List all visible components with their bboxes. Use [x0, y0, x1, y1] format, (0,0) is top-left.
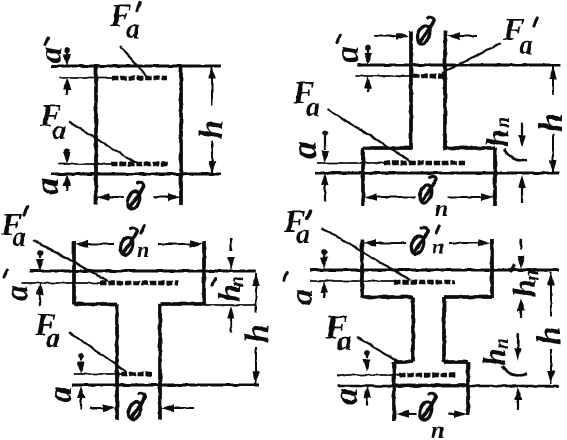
Q2 flange top right segment: [445, 146, 495, 150]
Q2 top rebar extension line: [356, 75, 413, 77]
Q2 inverted-T web right edge: [443, 31, 447, 150]
svg-text:a: a: [328, 388, 365, 405]
Q1 top rebar extension line: [59, 77, 112, 79]
Q2 flange left edge: [361, 148, 365, 206]
svg-text:a: a: [284, 141, 324, 159]
svg-text:a: a: [12, 222, 26, 253]
svg-text:h: h: [239, 324, 276, 343]
Q4 dimension h_p arrows: [517, 333, 519, 348]
Q3 flange bottom right segment: [160, 302, 204, 306]
Q4 dimension a' arrows: [321, 249, 327, 255]
Q3 label b_p': [118, 228, 137, 256]
Q4 bottom rebar F_a: [399, 373, 456, 377]
svg-text:a: a: [329, 46, 366, 63]
Q4 top flange bottom right segment: [444, 295, 492, 299]
Q1 rectangular section left edge: [94, 66, 98, 205]
Q3 dimension h_p' arrows: [230, 238, 232, 251]
Q3 T-section flange top edge: [30, 269, 256, 272]
svg-text:h: h: [476, 348, 512, 366]
Q2 inverted-T web left edge: [409, 31, 413, 150]
svg-text:п: п: [432, 234, 444, 259]
Q3 flange bottom extension right: [204, 304, 257, 306]
Q3 flange left edge: [72, 241, 76, 305]
Q3 dimension b_p' line: [75, 240, 88, 248]
Q1 dimension h line: [211, 66, 213, 106]
svg-text:h: h: [193, 120, 230, 139]
Q2 bottom rebar F_a: [384, 161, 465, 165]
Q3 section bottom edge: [72, 383, 259, 386]
Q3 web left edge: [115, 304, 119, 420]
Q4 leader from F_a to bottom rebar: [357, 337, 400, 363]
svg-text:a: a: [42, 386, 79, 403]
Q3 bottom rebar extension line: [74, 373, 121, 375]
Q2 dimension a arrows: [322, 130, 328, 136]
Q2 leader from F_a to bottom rebar: [327, 109, 412, 162]
Q2 dimension h_p arrows: [521, 122, 523, 135]
svg-text:a: a: [32, 47, 68, 63]
svg-text:a: a: [283, 289, 319, 305]
Q4 label b_p: [417, 393, 436, 421]
Q1 rectangular section top edge: [51, 64, 221, 67]
Q4 top rebar F_a': [394, 280, 455, 284]
Q2 inverted-T top edge: [357, 63, 560, 66]
Q4 bottom flange right edge: [466, 362, 470, 415]
Q1 label b (Cyrillic ve): [125, 182, 144, 210]
Q4 top flange bottom left segment: [362, 295, 413, 299]
Q2 flange bottom edge: [315, 171, 559, 174]
Q2 dimension b line: [374, 35, 396, 37]
Q3 dimension h line: [255, 273, 257, 312]
Q3 top rebar extension line: [22, 282, 100, 284]
Q4 dimension b_p' line: [363, 239, 376, 247]
svg-text:a: a: [296, 219, 310, 250]
Q4 bottom flange top right segment: [444, 360, 468, 364]
Q4 top rebar extension line: [310, 280, 394, 282]
Q3 flange right edge: [202, 241, 206, 305]
Q4 section bottom edge: [337, 385, 559, 387]
Q4 top flange left edge: [360, 239, 364, 298]
Q3 leader from F_a to bottom rebar: [69, 332, 127, 372]
Q3 web right edge: [158, 304, 162, 420]
svg-text:п: п: [137, 237, 149, 262]
Q1 leader from F_a' to top rebar: [120, 46, 147, 77]
svg-text:a: a: [337, 324, 352, 357]
Q1 leader from F_a to bottom rebar: [69, 122, 136, 163]
Q3 dimension a' arrows: [37, 250, 43, 256]
svg-text:п: п: [431, 418, 444, 440]
svg-text:h: h: [479, 129, 515, 147]
Q4 label b_p': [409, 227, 428, 255]
Q2 bottom rebar extension line: [317, 162, 384, 164]
Q1 dimension a arrows: [64, 148, 70, 154]
Q2 dimension h line: [552, 66, 554, 95]
Q2 dimension a' arrows: [365, 45, 371, 51]
Q2 label b_p: [417, 176, 436, 204]
svg-text:h: h: [533, 113, 567, 132]
Q1 bottom rebar F_a: [111, 162, 169, 166]
Q4 web right edge: [442, 297, 446, 362]
Q1 bottom rebar extension line: [58, 163, 111, 165]
svg-text:п: п: [435, 196, 448, 222]
Q4 bottom rebar extension line: [337, 374, 399, 376]
svg-text:a: a: [46, 323, 60, 354]
Q2 top rebar F_a': [413, 74, 446, 78]
Q3 leader from F_a' to top rebar: [33, 240, 108, 281]
svg-text:a: a: [29, 178, 66, 195]
svg-text:h: h: [531, 326, 567, 345]
Q4 web left edge: [411, 297, 415, 362]
svg-text:a: a: [519, 30, 533, 61]
svg-text:a: a: [0, 285, 34, 301]
Q4 bottom flange left edge: [392, 362, 396, 421]
svg-text:a: a: [52, 115, 66, 146]
Q4 dimension h line: [550, 272, 552, 316]
Q4 bottom flange top left segment: [394, 360, 413, 364]
Q3 top rebar F_a': [100, 281, 178, 285]
Q2 dimension b_p line: [364, 193, 377, 201]
svg-text:п: п: [491, 338, 513, 349]
Q3 dimension a arrows: [78, 353, 84, 359]
svg-text:п: п: [492, 117, 514, 128]
Q4 I-section top flange top edge: [310, 268, 559, 271]
svg-text:п: п: [226, 276, 248, 287]
svg-text:п: п: [521, 270, 543, 281]
Q2 leader from F_a' to top rebar: [442, 43, 501, 73]
Q1 rectangular section right edge: [179, 66, 183, 205]
svg-text:a: a: [306, 92, 320, 123]
Q4 top flange right edge: [490, 239, 494, 298]
Q1 dimension a' arrows: [64, 47, 70, 53]
Q3 bottom rebar F_a: [121, 372, 152, 376]
Q1 dimension b line: [96, 196, 124, 198]
Q3 dimension b line: [90, 407, 104, 409]
Q2 label b (Cyrillic ve): [415, 17, 434, 45]
Q4 dimension a arrows: [364, 350, 370, 356]
Q4 leader from F_a' to top rebar: [322, 228, 410, 280]
Q4 dimension b_p line: [396, 410, 409, 418]
Q3 flange bottom left segment: [74, 302, 117, 306]
Q1 rectangular section bottom edge: [51, 172, 221, 175]
Q4 dimension h_p' arrows: [520, 239, 522, 249]
Q2 flange right edge: [493, 148, 497, 206]
Q1 top rebar F_a': [112, 76, 167, 80]
Q3 label b (Cyrillic ve): [126, 393, 145, 421]
Q2 flange top left segment: [363, 146, 411, 150]
svg-text:a: a: [126, 14, 140, 45]
